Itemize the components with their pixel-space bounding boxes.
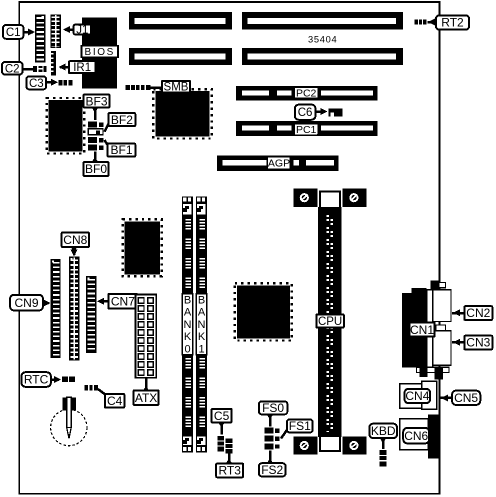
svg-text:RTC: RTC bbox=[24, 373, 49, 387]
wire leader CN5 bbox=[440, 394, 452, 401]
connector CN7 header bar bbox=[86, 276, 97, 353]
connector DIMM socket BANK0 bbox=[182, 196, 193, 452]
svg-text:BF1: BF1 bbox=[110, 143, 132, 157]
svg-text:0: 0 bbox=[184, 343, 190, 355]
wire leader BF1 bbox=[105, 140, 108, 145]
wire leader RT3 bbox=[228, 454, 231, 464]
svg-text:CN1: CN1 bbox=[410, 323, 434, 337]
connector C1 header bbox=[35, 15, 45, 63]
label CN9 bbox=[10, 295, 43, 311]
svg-text:FS2: FS2 bbox=[261, 463, 283, 477]
wire leader C5 bbox=[220, 422, 223, 434]
jumper block BF row 2 bbox=[88, 129, 103, 135]
wire leader CN3 bbox=[452, 339, 464, 346]
svg-text:K: K bbox=[198, 331, 206, 343]
chip U2 QFP bbox=[47, 98, 85, 154]
svg-text:N: N bbox=[184, 319, 192, 331]
svg-text:CN9: CN9 bbox=[14, 296, 38, 310]
connector CPU Slot 1 top bracket bbox=[294, 188, 367, 207]
svg-text:BIOS: BIOS bbox=[85, 47, 115, 58]
jumper block BF row 1 bbox=[88, 121, 103, 127]
jumper KBD component bbox=[380, 450, 387, 466]
label C4 bbox=[105, 394, 124, 408]
wire leader C2 bbox=[23, 68, 34, 71]
jumper RT3 component bbox=[226, 439, 233, 454]
wire leader SMB bbox=[150, 86, 162, 89]
svg-text:C5: C5 bbox=[214, 409, 230, 423]
svg-text:CN4: CN4 bbox=[405, 389, 429, 403]
wire leader tail CN8 bbox=[70, 246, 77, 253]
label CN4 bbox=[405, 389, 431, 403]
wire leader tail FS2 bbox=[266, 458, 273, 465]
svg-text:1: 1 bbox=[198, 343, 204, 355]
label BIOS bbox=[82, 46, 119, 59]
connector ISA slot 1 right segment bbox=[242, 12, 403, 30]
svg-text:BF0: BF0 bbox=[85, 162, 107, 176]
svg-text:PC1: PC1 bbox=[296, 124, 317, 136]
svg-text:A: A bbox=[198, 307, 206, 319]
svg-text:CN8: CN8 bbox=[63, 233, 87, 247]
jumper block FS row 3 bbox=[264, 443, 279, 449]
connector ISA slot 2 right segment bbox=[242, 48, 403, 65]
chip BIOS flash ROM bbox=[82, 18, 117, 89]
svg-text:B: B bbox=[184, 295, 191, 307]
label J1 bbox=[74, 25, 92, 37]
svg-text:SMB: SMB bbox=[164, 82, 189, 94]
wire leader C6 bbox=[316, 108, 328, 115]
label CN6 bbox=[403, 428, 429, 444]
battery holder bbox=[51, 397, 87, 445]
label C2 bbox=[2, 62, 23, 75]
label FS1 bbox=[287, 419, 313, 433]
label SMB bbox=[162, 81, 190, 94]
label BF0 bbox=[84, 162, 109, 176]
label RT2 bbox=[436, 16, 469, 30]
wire leader FS0 bbox=[269, 414, 272, 426]
wire leader BF2 bbox=[105, 124, 109, 132]
chip U1 QFP bbox=[153, 89, 211, 138]
connector ATX power bbox=[136, 295, 157, 378]
jumper block BF row 3 bbox=[88, 137, 103, 143]
wire leader C1 bbox=[23, 29, 35, 36]
label CN5 bbox=[452, 391, 480, 405]
label CN8 bbox=[62, 232, 89, 247]
label C3 bbox=[26, 76, 46, 90]
connector CN9 header bar bbox=[51, 259, 61, 358]
wire leader RT2 bbox=[428, 19, 437, 26]
wire leader BF0 bbox=[94, 152, 97, 163]
label BF3 bbox=[84, 94, 110, 108]
svg-text:B: B bbox=[198, 295, 205, 307]
svg-text:N: N bbox=[198, 319, 206, 331]
label CN7 bbox=[108, 294, 137, 309]
wire leader C3 bbox=[46, 79, 58, 86]
connector DIMM socket BANK1 bbox=[196, 196, 207, 452]
jumper C3 component bbox=[58, 80, 72, 86]
label C5 bbox=[212, 409, 232, 423]
wire leader CN7 bbox=[97, 298, 108, 305]
wire leader IR1 bbox=[58, 64, 69, 71]
wire leader tail FS0 bbox=[266, 413, 273, 420]
wire leader tail RT3 bbox=[225, 458, 232, 465]
jumper SMB component bbox=[126, 85, 151, 90]
connector J1 header bbox=[51, 15, 61, 49]
jumper block FS row 2 bbox=[264, 436, 279, 442]
label BF2 bbox=[109, 113, 136, 127]
connector IR1 header bbox=[51, 51, 56, 75]
chip U4 chipset QFP bbox=[235, 283, 292, 340]
wire leader tail ATX bbox=[142, 386, 149, 393]
svg-text:BF3: BF3 bbox=[85, 94, 107, 108]
label ATX bbox=[134, 390, 159, 405]
svg-text:CN7: CN7 bbox=[111, 294, 135, 308]
label PC2 bbox=[294, 87, 318, 99]
jumper C6 component bbox=[329, 108, 343, 116]
label CN3 bbox=[464, 336, 492, 350]
label RT3 bbox=[216, 464, 243, 478]
wire leader CN2 bbox=[452, 309, 464, 316]
svg-text:C2: C2 bbox=[5, 63, 20, 75]
svg-text:CN2: CN2 bbox=[466, 306, 490, 320]
svg-text:AGP: AGP bbox=[268, 158, 290, 170]
jumper block BF row 4 bbox=[88, 145, 103, 151]
svg-text:J1: J1 bbox=[76, 25, 88, 37]
svg-text:CN5: CN5 bbox=[454, 391, 478, 405]
label RTC bbox=[21, 372, 51, 387]
label AGP bbox=[267, 156, 290, 169]
wire leader KBD bbox=[382, 438, 385, 449]
wire leader tail KBD bbox=[379, 437, 386, 444]
svg-text:A: A bbox=[184, 307, 192, 319]
svg-text:CN3: CN3 bbox=[466, 336, 490, 350]
connector ISA slot 2 left segment bbox=[129, 48, 232, 65]
label IR1 bbox=[69, 61, 96, 74]
label KBD bbox=[369, 424, 397, 439]
jumper C5 component bbox=[218, 436, 225, 451]
jumper RT2 component bbox=[415, 20, 427, 25]
wire leader CN9 bbox=[43, 300, 51, 307]
wire leader tail C5 bbox=[218, 421, 225, 428]
svg-text:C6: C6 bbox=[298, 107, 313, 119]
jumper C2 component bbox=[33, 66, 47, 72]
svg-text:CPU: CPU bbox=[318, 316, 342, 328]
svg-text:K: K bbox=[184, 331, 192, 343]
svg-text:RT2: RT2 bbox=[441, 16, 464, 30]
svg-text:FS1: FS1 bbox=[289, 419, 311, 433]
wire leader FS1 bbox=[281, 430, 287, 439]
label FS2 bbox=[259, 463, 286, 477]
jumper RTC component bbox=[62, 376, 75, 382]
connector CN1 stacked port block bbox=[402, 280, 451, 379]
svg-text:KBD: KBD bbox=[371, 424, 396, 438]
svg-text:BF2: BF2 bbox=[111, 113, 133, 127]
wire leader FS2 bbox=[269, 451, 272, 464]
wire leader CN8 bbox=[71, 247, 78, 257]
label CN1 bbox=[409, 323, 434, 337]
wire leader tail BF0 bbox=[91, 157, 98, 164]
connector CN4 USB port bbox=[400, 381, 437, 409]
label C6 bbox=[295, 105, 316, 120]
jumper block FS row 1 bbox=[264, 428, 279, 434]
connector CPU Slot 1 body bbox=[318, 207, 342, 437]
svg-text:CN6: CN6 bbox=[404, 429, 428, 443]
connector CN6 keyboard port bbox=[400, 415, 440, 459]
label C1 bbox=[3, 25, 23, 39]
svg-text:C4: C4 bbox=[107, 394, 123, 408]
wire leader J1 bbox=[63, 26, 74, 33]
label CPU bbox=[316, 314, 344, 328]
wire leader ATX bbox=[145, 378, 148, 390]
label CN2 bbox=[464, 306, 492, 320]
connector ISA slot 1 left segment bbox=[129, 12, 232, 30]
jumper C4 component bbox=[84, 385, 98, 390]
chip U3 QFP bbox=[123, 219, 162, 276]
svg-text:C1: C1 bbox=[6, 27, 21, 39]
label BF1 bbox=[108, 143, 136, 157]
connector CPU Slot 1 bottom bracket bbox=[294, 437, 367, 455]
wire leader RTC bbox=[51, 376, 61, 383]
svg-text:35404: 35404 bbox=[308, 35, 337, 45]
wire leader tail BF3 bbox=[91, 107, 98, 114]
connector CN8 header bar bbox=[69, 257, 80, 361]
label FS0 bbox=[259, 401, 288, 415]
svg-text:C3: C3 bbox=[29, 78, 44, 90]
svg-text:FS0: FS0 bbox=[262, 401, 284, 415]
label PC1 bbox=[294, 124, 318, 136]
svg-text:RT3: RT3 bbox=[218, 464, 241, 478]
svg-text:PC2: PC2 bbox=[296, 88, 317, 100]
wire leader C4 bbox=[98, 389, 106, 395]
svg-text:IR1: IR1 bbox=[73, 62, 91, 74]
svg-text:ATX: ATX bbox=[135, 391, 157, 405]
connector AGP slot bbox=[217, 156, 339, 172]
connector PCI slot PC1 bbox=[236, 121, 378, 136]
wire leader BF3 bbox=[94, 108, 97, 120]
connector PCI slot PC2 bbox=[236, 86, 378, 101]
